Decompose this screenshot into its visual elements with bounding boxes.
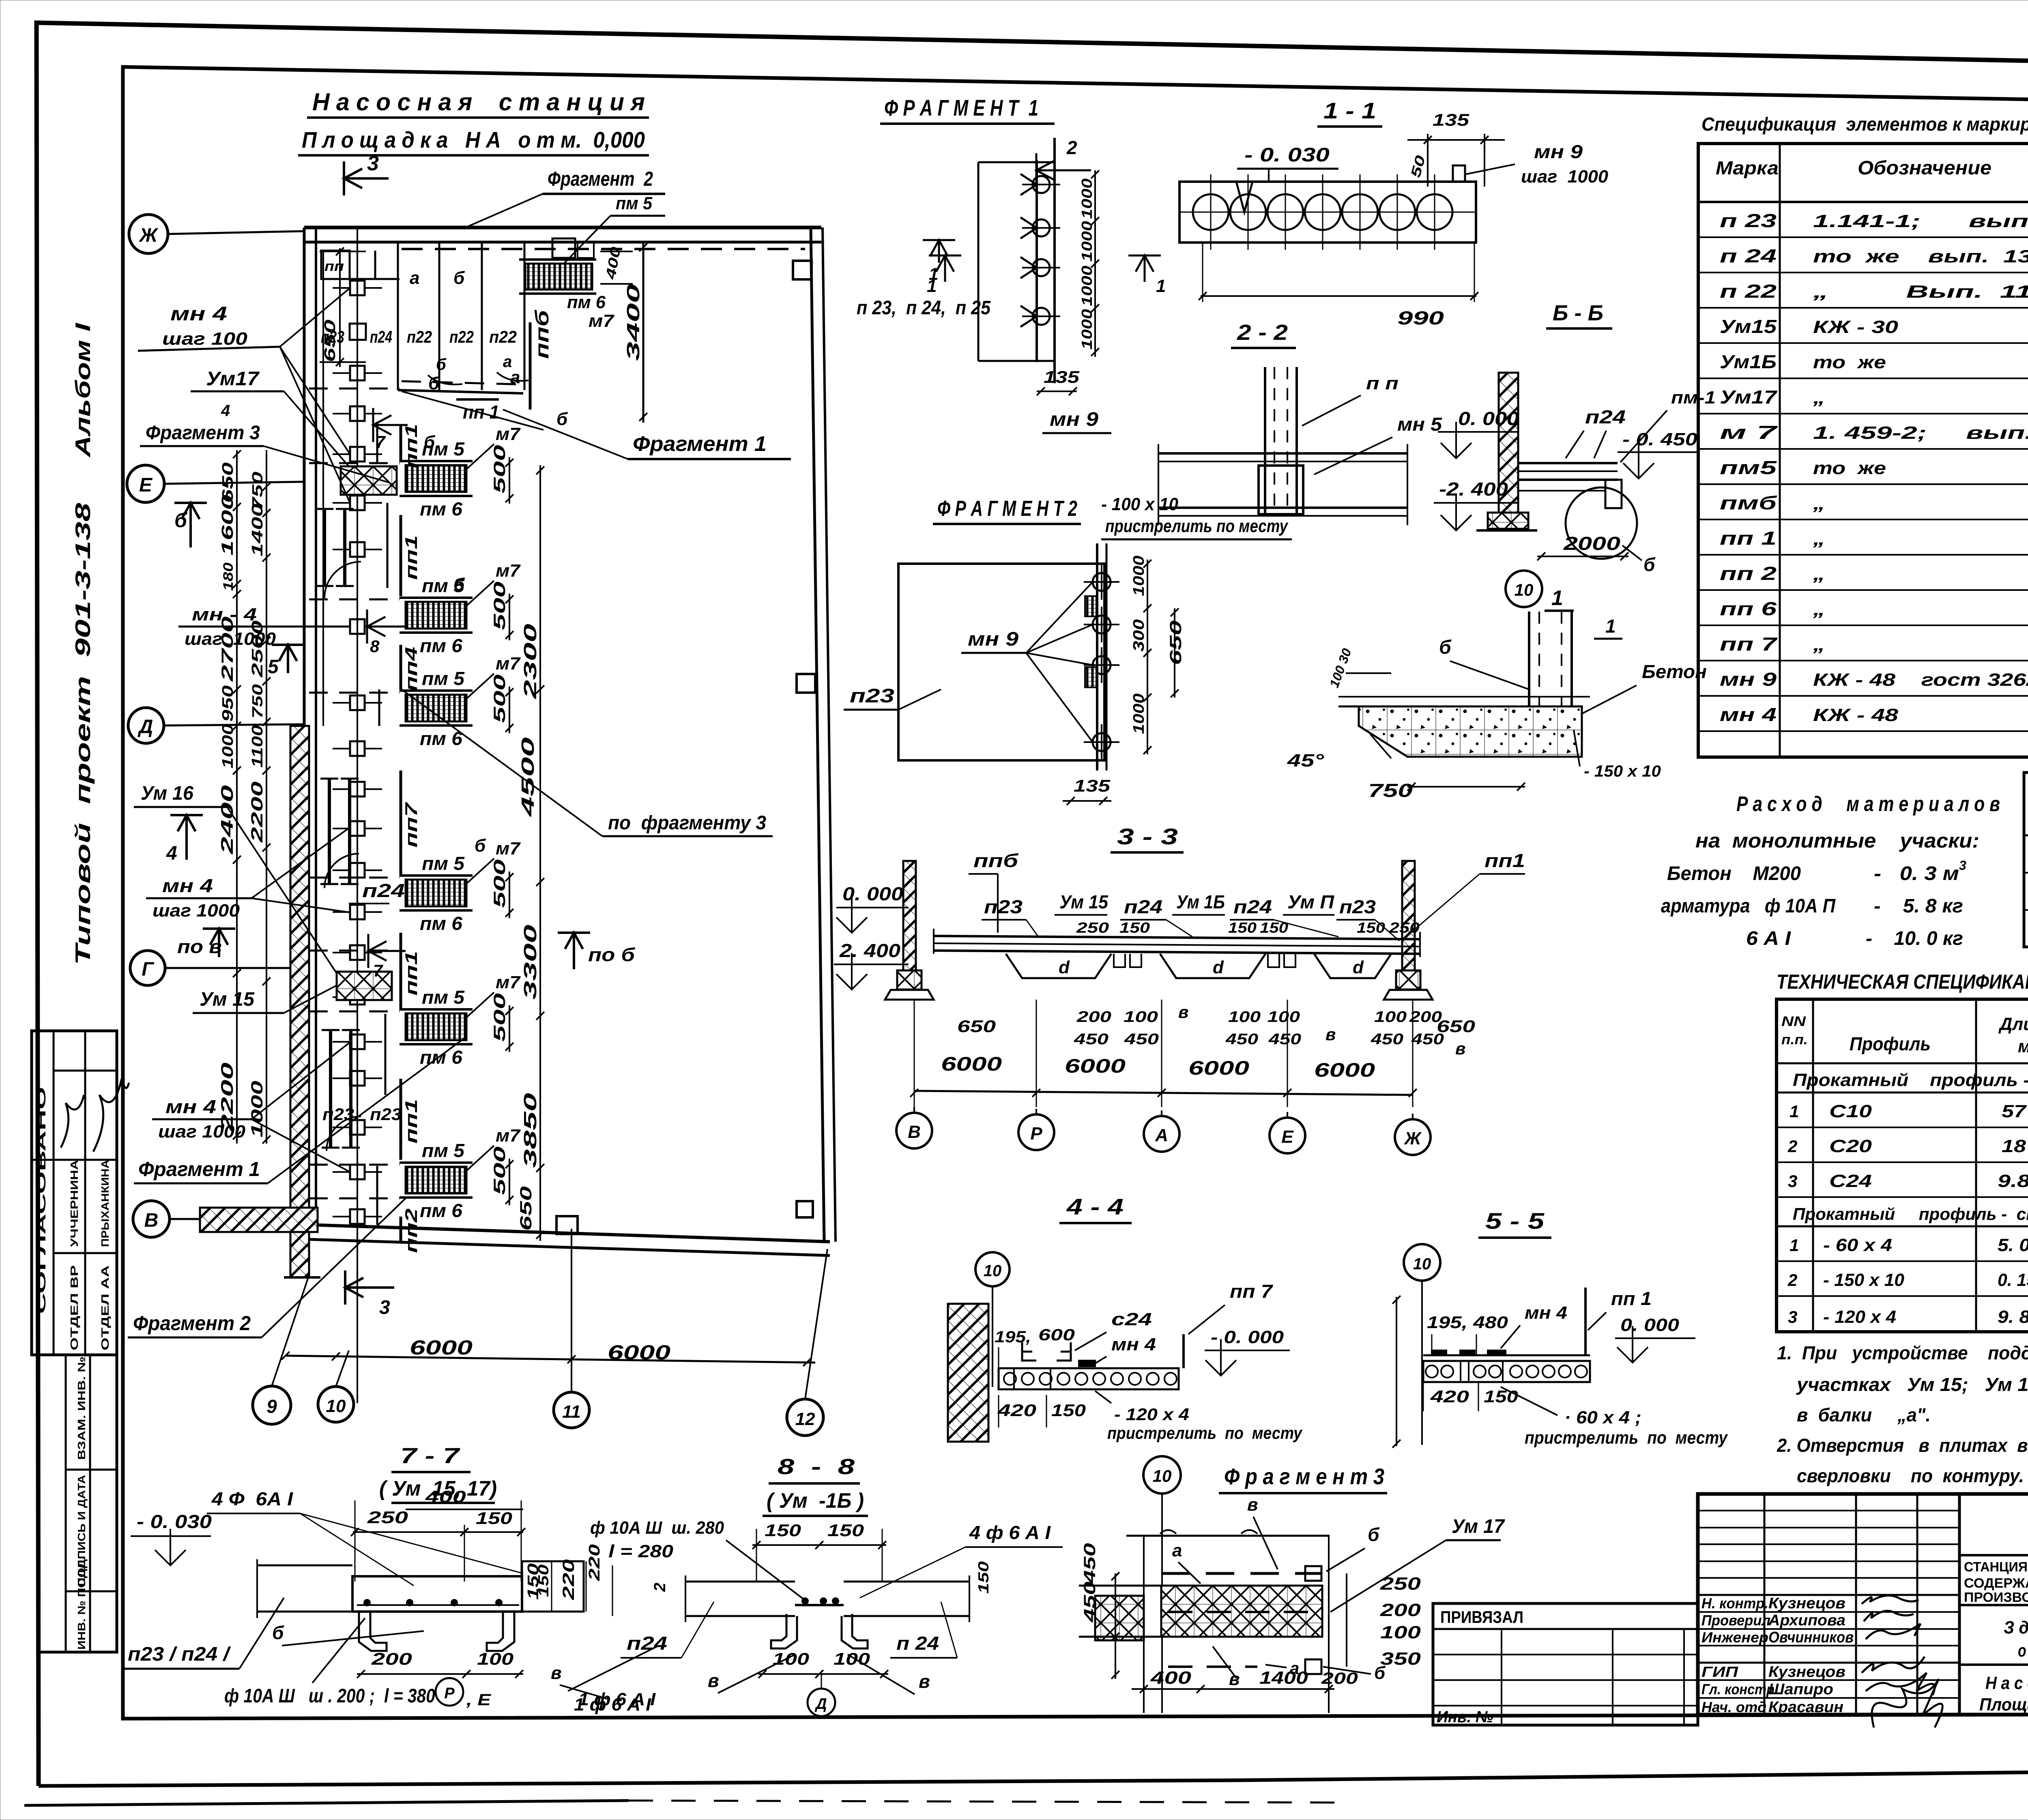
svg-text:8: 8 (370, 637, 380, 656)
svg-text:Овчинников: Овчинников (1768, 1629, 1854, 1646)
svg-text:750: 750 (1368, 780, 1413, 801)
svg-text:Н а с о с н а я с т а н ц и: Н а с о с н а я с т а н ц и я (312, 88, 645, 116)
svg-text:250: 250 (1076, 919, 1109, 936)
title block outer frame (1698, 1494, 2028, 1715)
svg-text:УЧЧЕРНИНА: УЧЧЕРНИНА (68, 1160, 80, 1247)
cut mark К-7 and other small arrows inside plan (410, 268, 520, 856)
3-3 left column with base (885, 861, 934, 1000)
svg-text:п23: п23 (370, 1105, 402, 1124)
dim 650 top-left corner (320, 247, 366, 367)
Б-Б floor slab lines (1518, 463, 1622, 508)
svg-text:3300: 3300 (520, 924, 540, 1000)
Б-Б labels п24 пм-1 (1566, 388, 1716, 462)
3-3 right column with base (1384, 861, 1433, 1000)
4-4 dims 420 150 and note (997, 1391, 1303, 1442)
svg-text:1: 1 (1605, 616, 1616, 637)
svg-text:а: а (410, 268, 419, 288)
axis В grid circle (133, 1201, 200, 1237)
К-7 mark upper (373, 408, 408, 452)
4-4 channel details on top (1022, 1342, 1095, 1366)
svg-text:d: d (1213, 957, 1224, 977)
Фрагмент 1 section arrows 1-1 (927, 255, 1166, 296)
title block project number ТП 901-3-138 КЖ (1959, 1513, 2028, 1555)
7-7 dims 150 220 right (525, 1559, 656, 1709)
svg-text:б: б (174, 509, 188, 532)
paper bottom scan streak (24, 1801, 1338, 1805)
Б-Б elevation -2.400 (1434, 479, 1518, 530)
svg-text:195, 480: 195, 480 (1427, 1313, 1508, 1332)
svg-text:Ум1Б: Ум1Б (1720, 351, 1777, 372)
detail 1 circled grid mark 10 (1506, 571, 1542, 607)
8-8 label Ф10АШ ш.280 l=280 (590, 1518, 807, 1602)
svg-text:мн 4: мн 4 (165, 1096, 216, 1117)
svg-text:, Е: , Е (466, 1691, 492, 1709)
svg-text:п 24: п 24 (1720, 245, 1777, 266)
svg-text:пп 2: пп 2 (1720, 563, 1777, 584)
svg-text:- 5. 8 кг: - 5. 8 кг (1874, 895, 1963, 917)
svg-text:100: 100 (1124, 1009, 1158, 1026)
svg-text:2200: 2200 (217, 1062, 236, 1132)
3-3 elevation 0.000 left (836, 883, 909, 933)
svg-text:6 А I: 6 А I (1746, 928, 1792, 949)
svg-text:650: 650 (957, 1017, 996, 1036)
svg-text:200: 200 (1076, 1009, 1111, 1026)
svg-text:в балки „а".: в балки „а". (1797, 1404, 1931, 1425)
svg-text:( Ум -1Б ): ( Ум -1Б ) (767, 1489, 864, 1513)
Фрагмент 2 label мн9 with leaders (961, 582, 1093, 742)
svg-text:пп 6: пп 6 (1720, 598, 1777, 619)
svg-text:Б - Б: Б - Б (1553, 301, 1603, 325)
svg-text:пм 6: пм 6 (420, 1200, 462, 1221)
svg-text:пп1: пп1 (402, 951, 421, 996)
small square columns on right wall (556, 261, 815, 1234)
svg-text:пп2: пп2 (402, 1208, 421, 1253)
Фрагмент 1 big label inside plan (402, 391, 791, 459)
svg-text:1600: 1600 (219, 495, 236, 556)
svg-text:Фрагмент 1: Фрагмент 1 (138, 1158, 260, 1180)
svg-text:пм 6: пм 6 (420, 913, 462, 934)
Фрагмент 2 label п23 (844, 685, 941, 710)
small room box top-left of plan (321, 251, 400, 279)
svg-text:Длина: Длина (1998, 1014, 2028, 1034)
2-2 labels пп and мн5 (1302, 373, 1443, 474)
Фрагмент 1 title (880, 95, 1055, 124)
svg-text:Фрагмент 2: Фрагмент 2 (133, 1312, 251, 1335)
svg-text:пм 6: пм 6 (420, 498, 462, 519)
svg-text:арматура ф 10А П: арматура ф 10А П (1661, 895, 1836, 917)
axis Ж grid circle (129, 215, 304, 253)
svg-text:10: 10 (1153, 1466, 1172, 1485)
п22 slab joint lines (398, 242, 524, 393)
left annotation мн4 шаг 100 (top) (138, 288, 350, 503)
svg-text:Ж: Ж (1404, 1129, 1422, 1148)
svg-text:350: 350 (1380, 1649, 1421, 1669)
svg-text:Инв. №: Инв. № (1437, 1708, 1493, 1726)
svg-text:б: б (1439, 637, 1452, 658)
5-5 slab with holes (1423, 1350, 1590, 1382)
svg-text:6000: 6000 (941, 1054, 1002, 1075)
svg-text:750: 750 (249, 684, 266, 719)
svg-text:п 22: п 22 (1720, 281, 1777, 302)
К cut marks on axis line (367, 610, 406, 980)
section 7-7 title (379, 1444, 497, 1503)
label ппб vertical (top) (530, 309, 552, 410)
svg-text:Р: Р (1030, 1124, 1042, 1144)
svg-text:Архипова: Архипова (1768, 1612, 1845, 1629)
Б-Б elevation 0.000 (1438, 408, 1519, 458)
svg-text:б: б (453, 575, 465, 595)
svg-text:мн 4: мн 4 (1720, 704, 1777, 725)
svg-text:с24: с24 (1111, 1309, 1152, 1329)
partition double bars group 3 (below Г axis) (322, 1030, 360, 1148)
element specification table title (1701, 114, 2028, 135)
dim 400/50 at top-right stair (600, 246, 633, 284)
svg-text:3850: 3850 (520, 1092, 540, 1168)
svg-text:б: б (556, 409, 568, 429)
svg-text:100: 100 (477, 1649, 513, 1668)
svg-text:м7: м7 (496, 561, 521, 581)
svg-text:пп 7: пп 7 (1720, 633, 1778, 655)
3-3 channel boxes d (1006, 954, 1391, 978)
7-7 label п23/п24/ (122, 1598, 424, 1669)
svg-text:„: „ (1813, 529, 1825, 549)
svg-text:б: б (1643, 554, 1656, 575)
svg-text:Альбом I: Альбом I (71, 322, 95, 458)
svg-text:пп1: пп1 (402, 535, 421, 580)
svg-text:пп 1: пп 1 (1611, 1288, 1652, 1309)
svg-text:1000: 1000 (219, 724, 236, 768)
svg-text:1000: 1000 (1130, 556, 1147, 596)
Фрагмент 3 drawing (1079, 1530, 1330, 1713)
svg-text:ПРЫХАНКИНА: ПРЫХАНКИНА (99, 1160, 111, 1247)
svg-text:В: В (908, 1122, 921, 1142)
svg-text:450: 450 (1074, 1031, 1109, 1048)
svg-text:10: 10 (326, 1396, 346, 1416)
svg-text:Прокатный профиль - швел: Прокатный профиль - швеллеры гост 8240-7… (1793, 1070, 2028, 1090)
approval stamp box (Согласовано) (32, 1031, 129, 1355)
wall on axis В (hatched strip) (200, 1208, 318, 1232)
section 5-5 title (1478, 1208, 1551, 1238)
left annotation Ум 15 label (193, 985, 337, 1013)
svg-text:п24: п24 (1124, 896, 1162, 917)
svg-text:950: 950 (219, 685, 236, 722)
svg-text:м7: м7 (496, 1126, 521, 1146)
svg-text:d: d (1353, 957, 1364, 977)
label п24 (inside plan) (349, 880, 405, 904)
svg-text:пп 1: пп 1 (1720, 528, 1777, 549)
svg-text:пм 5: пм 5 (422, 987, 465, 1008)
svg-text:135: 135 (1433, 110, 1469, 129)
8-8 label 4Ф6АI right (860, 1522, 1063, 1598)
svg-text:мн 4: мн 4 (170, 303, 227, 325)
svg-text:1000: 1000 (1130, 693, 1147, 734)
svg-text:500: 500 (491, 993, 509, 1042)
svg-text:п22: п22 (489, 327, 517, 346)
Фрагмент 2 title (933, 496, 1081, 524)
extra verticals in left band (377, 422, 387, 1225)
1-1 bottom dim 990 (1199, 243, 1478, 328)
svg-text:по б: по б (588, 944, 636, 965)
3-3 grid bubble Е (1270, 1112, 1305, 1153)
svg-text:мн 4: мн 4 (1111, 1335, 1156, 1354)
title block Здание станции row (1959, 1605, 2028, 1665)
4-4 dims 195 600 (995, 1326, 1075, 1368)
steel specification table (1777, 999, 2028, 1332)
svg-text:11: 11 (562, 1402, 581, 1422)
svg-text:б: б (453, 268, 465, 288)
svg-text:9.8: 9.8 (1998, 1171, 2028, 1191)
svg-text:150: 150 (1484, 1387, 1518, 1406)
Фрагмент 3 dims 400/1400/200 bottom (1132, 1668, 1358, 1693)
Фрагмент 1 right dim chain 1000x4 (1078, 170, 1099, 357)
svg-text:п 23, п 24, п 25: п 23, п 24, п 25 (857, 297, 991, 319)
svg-text:то же: то же (1813, 458, 1886, 478)
svg-text:450: 450 (1268, 1031, 1301, 1048)
svg-text:Ум 17: Ум 17 (1452, 1516, 1505, 1537)
svg-text:0. 000: 0. 000 (1458, 408, 1519, 429)
4-4 hatched wall (948, 1304, 988, 1442)
7-7 label 4Ф6АI (207, 1488, 523, 1586)
svg-text:- 120 х 4: - 120 х 4 (1114, 1405, 1189, 1424)
svg-text:СТАНЦИЯ ОБЕЗЖЕЛЕЗИВАНИЯ ВОДЫ: СТАНЦИЯ ОБЕЗЖЕЛЕЗИВАНИЯ ВОДЫ ПОДЗЕМНЫХ И… (1964, 1559, 2028, 1574)
3-3 grid bubble Р (1018, 1109, 1054, 1150)
svg-text:7: 7 (373, 961, 383, 980)
section arrow 1 near plan right wall (923, 240, 955, 283)
svg-text:пм 6: пм 6 (567, 292, 606, 312)
sheet title line 2: Площадка на отм. 0.000 (298, 127, 649, 155)
svg-text:пм 6: пм 6 (420, 728, 462, 749)
svg-text:пм 5: пм 5 (422, 668, 465, 689)
svg-text:100: 100 (1228, 1009, 1261, 1026)
svg-text:З д а н и е с т а н ц и и: З д а н и е с т а н ц и и (2004, 1618, 2028, 1638)
svg-text:ф 10А Ш ш. 280: ф 10А Ш ш. 280 (590, 1518, 724, 1538)
svg-text:А: А (1155, 1125, 1168, 1145)
Фрагмент 2 plate with targets (1084, 543, 1119, 770)
svg-text:1.141-1; вып. 6: 1.141-1; вып. 6 (1813, 211, 2028, 231)
3-3 elevation -2.400 left (834, 940, 909, 989)
svg-text:- 0. 3 м: - 0. 3 м (1874, 863, 1959, 884)
svg-text:2500: 2500 (249, 620, 266, 678)
stair flight пм5/пм6 row 1 (400, 424, 521, 519)
svg-text:м7: м7 (496, 654, 521, 674)
column axis line with мн4 embedded plates (333, 227, 382, 1403)
svg-text:0. 000: 0. 000 (1620, 1315, 1680, 1335)
svg-text:пп: пп (324, 259, 344, 274)
svg-text:650: 650 (1437, 1017, 1475, 1036)
Фрагмент 1 dim 135 (1037, 367, 1080, 395)
svg-text:КЖ - 48: КЖ - 48 (1813, 705, 1899, 725)
svg-text:п 23: п 23 (1720, 210, 1777, 231)
svg-text:200: 200 (1321, 1670, 1358, 1687)
svg-text:Ум 15: Ум 15 (1059, 891, 1109, 912)
svg-text:500: 500 (491, 674, 509, 723)
landing Ум16 cross-hatched (lower) (337, 972, 392, 1000)
stair flight пм5/пм6 row 4 (400, 839, 521, 934)
partition double bars group 2 (below Д axis) (320, 779, 359, 884)
element specification table rows (1720, 202, 2028, 732)
svg-text:шаг 1000: шаг 1000 (153, 901, 240, 921)
section arrow по в (left) (177, 929, 235, 957)
Фрагмент 2 bottom dim 135 (1063, 776, 1111, 805)
svg-text:200: 200 (1380, 1600, 1421, 1620)
svg-text:4 Ф 6А I: 4 Ф 6А I (211, 1488, 293, 1509)
svg-text:Ум 1Б: Ум 1Б (1176, 891, 1225, 912)
svg-text:пп1: пп1 (402, 1099, 421, 1144)
Фрагмент 1 label мн 9 (1042, 409, 1111, 433)
svg-text:Кузнецов: Кузнецов (1768, 1595, 1845, 1612)
2-2 beam lines (1158, 444, 1407, 525)
svg-text:1000: 1000 (248, 1081, 266, 1137)
svg-text:ппб: ппб (531, 309, 552, 359)
section Б-Б title (1546, 301, 1612, 328)
svg-text:400: 400 (425, 1487, 466, 1506)
svg-text:ТЕХНИЧЕСКАЯ СПЕЦИФИКАЦИЯ СТАЛИ: ТЕХНИЧЕСКАЯ СПЕЦИФИКАЦИЯ СТАЛИ КЛАССА С … (1777, 970, 2028, 993)
landing Ум17 cross-hatched (upper) (341, 466, 397, 495)
svg-text:250: 250 (1380, 1574, 1421, 1594)
svg-text:1000: 1000 (1078, 266, 1095, 306)
svg-text:990: 990 (1397, 307, 1444, 328)
svg-text:пристрелить по месту: пристрелить по месту (1107, 1423, 1303, 1442)
Фрагмент 2 label (top) with leaders (466, 167, 665, 264)
svg-text:б: б (1368, 1524, 1380, 1545)
svg-text:шаг 100: шаг 100 (162, 329, 248, 349)
svg-text:Нач. отд: Нач. отд (1701, 1699, 1766, 1715)
svg-text:п23: п23 (850, 685, 894, 707)
svg-text:6000: 6000 (1065, 1056, 1126, 1077)
Фрагмент 2 big box (898, 564, 1104, 760)
axis Д grid circle (128, 708, 304, 743)
svg-text:б: б (424, 432, 436, 452)
svg-text:ПРИВЯЗАЛ: ПРИВЯЗАЛ (1440, 1608, 1523, 1627)
svg-text:ф 10А Ш ш . 200 ; l = 380: ф 10А Ш ш . 200 ; l = 380 (224, 1685, 435, 1707)
svg-text:то же: то же (1813, 352, 1886, 372)
svg-text:450: 450 (1081, 1582, 1099, 1623)
svg-text:пм 5: пм 5 (422, 1140, 465, 1161)
left annotation мн4 шаг 1000 (3) (152, 1042, 350, 1172)
svg-text:Типовой проект 901-3-138: Типовой проект 901-3-138 (71, 503, 95, 965)
svg-text:на монолитные учаски:: на монолитные учаски: (1695, 829, 1979, 852)
svg-text:Р: Р (444, 1685, 455, 1702)
detail 1 concrete footing (1287, 697, 1590, 770)
svg-text:пп4: пп4 (402, 647, 421, 691)
labels п23 п23 (bottom left of plan) (322, 1105, 402, 1124)
3-3 lower dims 200/100 450/450 row (957, 1002, 1475, 1058)
svg-text:1 - 1: 1 - 1 (1323, 98, 1376, 123)
svg-text:Р а с х о д м а т е р и а: Р а с х о д м а т е р и а л о в (1736, 792, 2000, 816)
svg-text:П л о щ а д к а Н А о т м.: П л о щ а д к а Н А о т м. 0,000 (302, 127, 645, 152)
8-8 label 1Ф6АI bottom left (568, 1646, 657, 1715)
svg-text:- 0. 030: - 0. 030 (1244, 144, 1330, 166)
notes 1 and 2 under steel table (1777, 1342, 2028, 1486)
7-7 slab section (257, 1559, 584, 1618)
svg-text:пп 7: пп 7 (1230, 1281, 1274, 1302)
grid circle 11 (bottom) (554, 1229, 589, 1428)
svg-text:150: 150 (827, 1521, 864, 1540)
svg-text:Кузнецов: Кузнецов (1768, 1663, 1845, 1680)
svg-text:Площадка на отм. 0.000 .: Площадка на отм. 0.000 . (1979, 1695, 2028, 1715)
svg-text:В: В (144, 1210, 159, 1231)
svg-text:в: в (1229, 1669, 1240, 1689)
svg-text:400: 400 (1150, 1668, 1192, 1688)
svg-text:- 150 х 10: - 150 х 10 (1823, 1270, 1905, 1290)
svg-text:100: 100 (1380, 1623, 1421, 1642)
title block left grid and signature rows (1698, 1494, 1959, 1716)
svg-text:1: 1 (1156, 276, 1166, 296)
svg-text:пристрелить по месту: пристрелить по месту (1525, 1428, 1728, 1448)
svg-text:п24: п24 (1585, 406, 1626, 427)
Фрагмент 2 right dim chain 1000/300/650/1000 (1130, 556, 1185, 754)
plan left wall upper (304, 227, 323, 726)
svg-text:2000: 2000 (1563, 533, 1621, 554)
а б small letters in plan areas (428, 353, 528, 384)
svg-text:пп7: пп7 (402, 802, 421, 848)
svg-text:10: 10 (1413, 1255, 1431, 1273)
5-5 labels мн4 пп1 0.000 (1501, 1288, 1695, 1363)
svg-text:„: „ (1813, 494, 1825, 513)
svg-text:п22: п22 (449, 327, 474, 346)
svg-text:Ум 16: Ум 16 (141, 783, 193, 804)
svg-text:в: в (1326, 1025, 1336, 1044)
svg-text:Прокатный профиль - сталь: Прокатный профиль - сталь листовая гост … (1793, 1204, 2028, 1223)
section arrow 5 (left) (268, 645, 304, 678)
svg-text:Н а с о с н а я с т а н ц и: Н а с о с н а я с т а н ц и я . (1985, 1673, 2028, 1693)
svg-text:п23: п23 (1339, 896, 1376, 917)
svg-text:СОДЕРЖАНИЕМ ЖЕЛЕЗА ДО 10 мг/: СОДЕРЖАНИЕМ ЖЕЛЕЗА ДО 10 мг/л (1964, 1575, 2028, 1590)
svg-text:Марка: Марка (1716, 157, 1779, 178)
svg-text:то же вып. 13: то же вып. 13 (1813, 247, 2028, 266)
svg-text:d: d (1059, 957, 1070, 977)
svg-text:1000: 1000 (1078, 178, 1095, 219)
svg-text:пм 6: пм 6 (420, 635, 462, 656)
Фрагмент 3 circled grid mark 10 (1143, 1456, 1181, 1713)
svg-text:мн 9: мн 9 (1534, 141, 1583, 162)
svg-text:450: 450 (1081, 1543, 1099, 1584)
svg-text:150: 150 (535, 1565, 552, 1597)
svg-text:18: 18 (2002, 1136, 2026, 1156)
label Фрагмент 1 (bottom) with leader (134, 1038, 464, 1183)
svg-text:2: 2 (651, 1583, 669, 1592)
label по фрагменту 3 with long leader (402, 689, 773, 836)
svg-text:мн 5: мн 5 (1397, 414, 1443, 435)
label пп1 with overline (top) (456, 399, 499, 423)
svg-text:ОТДЕЛ АА: ОТДЕЛ АА (99, 1265, 111, 1350)
svg-text:2300: 2300 (520, 623, 540, 700)
1-1 labels мн9 шаг 1000 (1465, 141, 1609, 187)
svg-text:пм5: пм5 (1720, 457, 1777, 478)
Привязал box (1433, 1603, 1698, 1726)
svg-text:10: 10 (984, 1262, 1002, 1280)
section 3-3 title (1111, 824, 1184, 852)
left annotation мн-4 шаг 1000 (178, 605, 349, 649)
svg-text:б: б (272, 1622, 284, 1643)
left annotation мн4 шаг 1000 (2) (146, 827, 350, 921)
svg-text:Фрагмент 3: Фрагмент 3 (146, 422, 260, 444)
svg-text:500: 500 (491, 859, 509, 908)
svg-text:650: 650 (517, 1186, 535, 1231)
Фрагмент 1 cut mark 2 (top) (1036, 137, 1091, 187)
svg-text:пм 5: пм 5 (422, 853, 465, 874)
svg-text:2 - 2: 2 - 2 (1237, 320, 1288, 345)
material consumption note (1661, 792, 2000, 949)
svg-text:участках Ум 15; Ум 1Б; У: участках Ум 15; Ум 1Б; Ум 17 балки „ в (1796, 1374, 2028, 1395)
svg-text:250: 250 (1389, 919, 1420, 936)
grid circle 9 (bottom) (253, 1277, 308, 1424)
3-3 labels row (ппб п23 Ум15 п24 Ум16 п24 Ум17 п23 пп1) (969, 850, 1525, 941)
svg-text:- 150 х 10: - 150 х 10 (1584, 762, 1661, 780)
4-4 circled grid mark 10 (975, 1252, 1010, 1387)
svg-text:100: 100 (1374, 1009, 1407, 1026)
svg-text:150: 150 (1260, 919, 1288, 936)
